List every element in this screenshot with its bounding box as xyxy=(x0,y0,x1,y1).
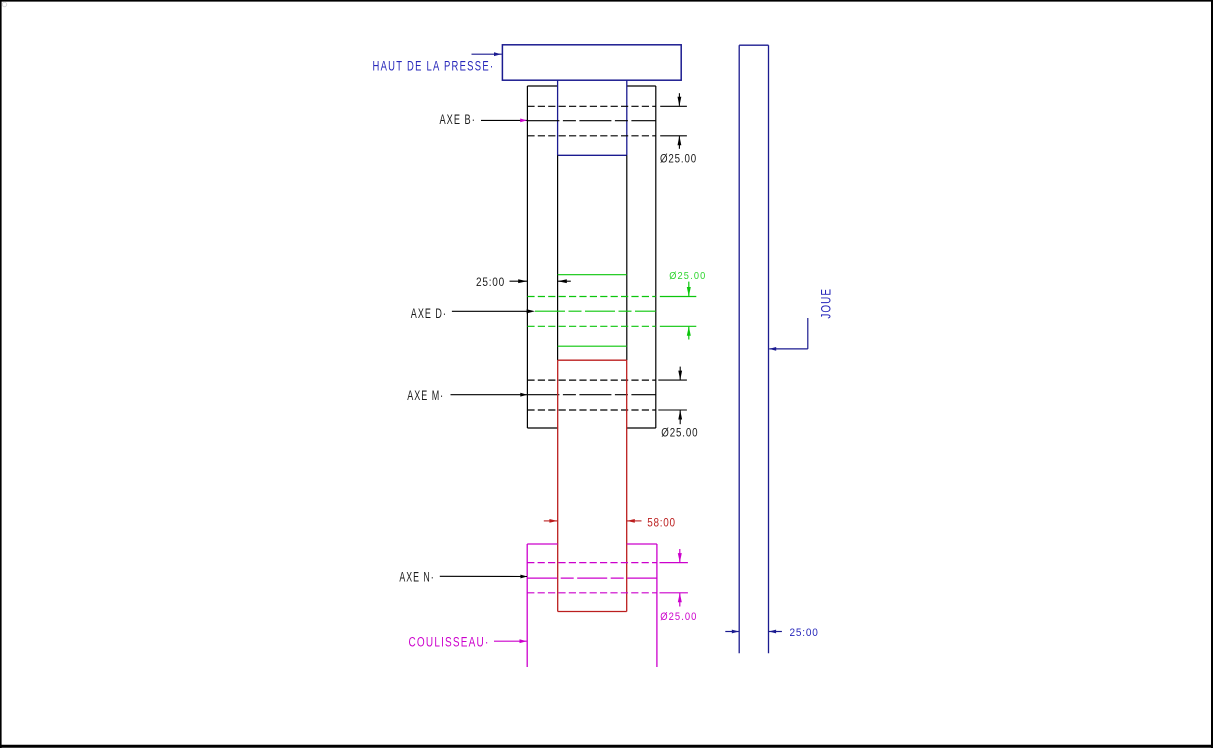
border frame bottom xyxy=(0,745,1213,748)
coulisseau magenta top flange right xyxy=(627,543,657,545)
leader JOUE horizontal segment xyxy=(769,348,808,350)
border frame top xyxy=(0,0,1213,2)
axe D green center line xyxy=(535,310,656,312)
green dim extension lower xyxy=(660,325,697,327)
axe D green hidden line lower xyxy=(527,325,655,327)
joue top horizontal (blue) xyxy=(739,44,768,46)
outer column top flange left xyxy=(527,85,557,87)
arrowhead AXE N (black) xyxy=(520,575,527,579)
svg-text:AXE N·: AXE N· xyxy=(399,569,434,584)
dim extension line Ø25.00 top lower xyxy=(660,135,687,137)
axe B hidden line lower xyxy=(527,135,655,137)
dim extension Ø25.00 mid lower xyxy=(658,409,687,411)
dim 58:00 left arrow (red) xyxy=(544,519,558,523)
green dim arrow upper (down) xyxy=(687,282,691,297)
outer column bottom flange left xyxy=(527,427,557,429)
coulisseau magenta right vertical xyxy=(656,544,658,667)
axe M center line xyxy=(527,394,655,396)
leader HAUT DE LA PRESSE xyxy=(472,52,502,56)
leader COULISSEAU (magenta) xyxy=(494,640,527,642)
axe M hidden line lower xyxy=(527,409,655,411)
svg-text:58:00: 58:00 xyxy=(647,516,676,530)
svg-text:25:00: 25:00 xyxy=(476,275,505,289)
dim 25:00 left arrow xyxy=(510,279,528,283)
dim extension Ø25.00 mid upper xyxy=(658,379,687,381)
svg-text:25:00: 25:00 xyxy=(790,627,819,639)
arrowhead AXE M (black) xyxy=(520,393,527,397)
dim arrow mid-upper (down) xyxy=(678,367,682,381)
green bore solid line upper xyxy=(558,274,627,276)
outer column right vertical xyxy=(655,86,657,428)
dim 25:00 blue right arrow xyxy=(769,630,782,634)
coulisseau magenta top flange left xyxy=(527,543,558,545)
svg-text:Ø25.00: Ø25.00 xyxy=(660,152,697,166)
green dim extension upper xyxy=(660,296,697,298)
axe B center line xyxy=(527,120,655,122)
dim 58:00 right arrow (red) xyxy=(627,519,642,523)
svg-text:AXE M·: AXE M· xyxy=(407,388,444,403)
dim 25:00 right arrow xyxy=(558,279,571,283)
red ram bottom horizontal xyxy=(558,611,627,613)
border frame left xyxy=(0,0,2,748)
dim extension line Ø25.00 top upper xyxy=(660,105,687,107)
green dim arrow lower (up) xyxy=(687,326,691,339)
axe N hidden line lower (magenta) xyxy=(527,592,657,594)
svg-text:JOUE: JOUE xyxy=(819,288,834,319)
svg-text:Ø25.00: Ø25.00 xyxy=(669,271,706,282)
dim arrow top-lower (up) xyxy=(678,136,682,149)
joue right vertical (blue) xyxy=(768,45,770,653)
outer column left vertical xyxy=(526,86,528,428)
svg-text:COULISSEAU·: COULISSEAU· xyxy=(409,635,490,650)
arrowhead COULISSEAU (magenta) xyxy=(520,639,527,643)
leader AXE N xyxy=(440,575,527,577)
axe N hidden line upper (magenta) xyxy=(527,562,657,564)
dim arrow top-upper (down) xyxy=(678,93,682,106)
border frame right xyxy=(1211,0,1213,748)
inner shaft blue vertical left xyxy=(557,80,559,155)
axe N center line (magenta) xyxy=(527,577,657,579)
red ram right vertical xyxy=(626,360,628,611)
axe D green hidden line upper xyxy=(527,296,655,298)
green bore solid line lower xyxy=(558,345,627,347)
dim arrow mid-lower (up) xyxy=(678,410,682,424)
red ram left vertical xyxy=(557,360,559,611)
inner shaft blue horizontal xyxy=(558,154,627,156)
leader AXE D xyxy=(452,310,527,312)
coulisseau magenta left vertical xyxy=(526,544,528,667)
faint corner mark xyxy=(2,2,6,6)
svg-text:HAUT DE LA PRESSE·: HAUT DE LA PRESSE· xyxy=(373,58,495,73)
inner shaft black vertical right xyxy=(626,155,628,360)
red ram top horizontal xyxy=(558,359,627,361)
inner shaft black vertical left xyxy=(557,155,559,360)
dim 25:00 blue left arrow xyxy=(725,630,739,634)
axe B hidden line upper xyxy=(527,105,655,107)
axe M hidden line upper xyxy=(527,379,655,381)
magenta dim arrow lower (up) xyxy=(678,593,682,607)
outer column top flange right xyxy=(627,85,656,87)
svg-text:Ø25.00: Ø25.00 xyxy=(661,425,698,439)
svg-text:Ø25.00: Ø25.00 xyxy=(660,611,697,623)
inner shaft blue vertical right xyxy=(626,80,628,155)
arrowhead AXE B (magenta) xyxy=(520,119,527,123)
magenta dim extension upper xyxy=(660,562,688,564)
magenta dim arrow upper (down) xyxy=(678,549,682,563)
top plate rectangle (HAUT DE LA PRESSE) xyxy=(502,45,681,80)
arrowhead JOUE (blue, pointing left) xyxy=(769,347,776,351)
joue left vertical (blue) xyxy=(738,45,740,653)
magenta dim extension lower xyxy=(660,592,688,594)
svg-text:AXE B·: AXE B· xyxy=(440,112,476,127)
svg-text:AXE D·: AXE D· xyxy=(411,306,447,321)
leader AXE B xyxy=(481,119,527,121)
leader JOUE vertical segment xyxy=(807,318,809,349)
outer column bottom flange right xyxy=(627,427,656,429)
arrowhead AXE D (black, pointing right past line) xyxy=(527,309,535,313)
leader AXE M xyxy=(451,394,528,396)
